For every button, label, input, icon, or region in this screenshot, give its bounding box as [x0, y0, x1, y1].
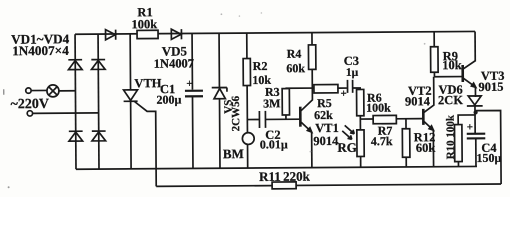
svg-text:BM: BM	[223, 146, 244, 161]
wire top rail	[75, 31, 475, 34]
wire zener column	[218, 33, 221, 168]
scan speck bottom left	[8, 186, 10, 188]
photoresistor RG	[357, 130, 364, 157]
wire R2 BM column	[246, 33, 249, 168]
resistor R4	[308, 45, 315, 70]
resistor R6	[357, 89, 364, 115]
wire VD6 to node	[474, 105, 476, 133]
svg-text:VTH: VTH	[134, 76, 161, 90]
svg-text:R2: R2	[253, 59, 268, 73]
wire lamp to bridge	[59, 90, 75, 92]
capacitor C1	[185, 90, 203, 92]
wire C2 to VT1 base	[266, 118, 299, 120]
svg-text:9014: 9014	[405, 94, 431, 108]
resistor R2	[243, 59, 250, 86]
zener VS	[212, 87, 227, 98]
svg-text:R10 100k: R10 100k	[445, 114, 457, 159]
wire VT3 emitter to VD6	[474, 87, 476, 97]
transistor VT2	[422, 109, 425, 125]
wire bottom rail A	[76, 166, 477, 169]
svg-text:1µ: 1µ	[346, 67, 359, 79]
svg-text:150µ: 150µ	[476, 151, 501, 165]
wire bottom rail B (R11 trigger line)	[156, 184, 501, 186]
wire C3 to R6	[353, 88, 360, 90]
svg-text:R4: R4	[287, 47, 302, 61]
wire right rail down to VT3	[474, 31, 476, 61]
wire node to R10	[458, 115, 476, 125]
scan specks top middle	[221, 13, 223, 15]
capacitor C3	[347, 80, 352, 93]
wire base line to C2	[248, 118, 259, 120]
microphone BM	[242, 133, 254, 145]
wire VT1 emitter down	[311, 132, 313, 168]
svg-text:62k: 62k	[314, 108, 333, 122]
terminal upper AC	[26, 88, 31, 93]
wire C1 column	[191, 33, 194, 168]
light arrows RG	[345, 125, 355, 134]
wire R6 to node	[359, 116, 361, 130]
resistor R5	[314, 85, 338, 93]
diode VD3	[69, 131, 83, 141]
svg-text:100k: 100k	[366, 101, 391, 115]
svg-text:+: +	[186, 78, 192, 90]
wire node to R7	[360, 118, 373, 120]
capacitor C4	[467, 133, 485, 135]
diode VD4	[92, 131, 106, 141]
wire R5 to C3	[338, 87, 347, 89]
wire upper AC to lamp	[31, 89, 47, 91]
resistor R7	[373, 115, 396, 123]
svg-text:220k: 220k	[283, 169, 311, 184]
wire bridge left column	[74, 34, 77, 169]
svg-text:R11: R11	[259, 169, 281, 184]
svg-text:200µ: 200µ	[156, 93, 181, 107]
diode VD2	[91, 60, 105, 70]
svg-text:4.7k: 4.7k	[371, 134, 393, 148]
transistor VT3	[461, 65, 464, 82]
capacitor C2	[259, 111, 265, 128]
svg-text:2CK: 2CK	[438, 93, 463, 107]
wire VT2 emitter down	[432, 130, 434, 167]
diode VD1	[68, 60, 82, 70]
svg-text:100k: 100k	[131, 17, 157, 31]
wire R7 to VT2 base	[396, 118, 422, 120]
thyristor VTH	[124, 90, 138, 101]
svg-text:60k: 60k	[416, 141, 436, 155]
wire lower AC to bridge	[33, 112, 99, 114]
diode on top rail	[106, 30, 116, 40]
wire R12 column	[405, 119, 407, 129]
transistor VT1	[299, 107, 302, 127]
resistor R11	[272, 182, 296, 189]
svg-text:~220V: ~220V	[10, 97, 48, 112]
wire R4 column	[311, 33, 313, 88]
svg-text:10k: 10k	[442, 58, 462, 72]
svg-text:1N4007: 1N4007	[154, 56, 194, 70]
svg-text:0.01µ: 0.01µ	[260, 137, 288, 151]
resistor R9	[431, 47, 439, 73]
wire VTH gate	[135, 101, 157, 186]
resistor R3	[282, 89, 289, 115]
wire R3 top to R4 node	[285, 87, 315, 89]
node junction dot	[473, 110, 477, 114]
svg-text:1N4007×4: 1N4007×4	[12, 43, 69, 58]
wire node right leg	[476, 110, 502, 184]
resistor R12	[402, 129, 410, 158]
wire VTH column	[129, 34, 132, 169]
svg-text:2CW56: 2CW56	[230, 95, 242, 131]
terminal lower AC	[27, 111, 32, 116]
svg-text:+: +	[467, 121, 473, 133]
scan speck left edge	[3, 89, 5, 94]
wire bridge right column	[97, 34, 100, 169]
svg-text:VT1: VT1	[315, 121, 339, 135]
svg-text:RG: RG	[337, 140, 357, 155]
svg-text:3M: 3M	[263, 96, 280, 110]
svg-text:9014: 9014	[313, 134, 339, 148]
svg-text:C3: C3	[344, 54, 359, 68]
svg-text:9015: 9015	[478, 80, 503, 94]
resistor R10	[454, 125, 462, 162]
svg-text:+: +	[340, 88, 346, 100]
wire R9 column	[433, 32, 435, 77]
wire VT2 collector to VT3 base	[434, 76, 461, 78]
diode VD6	[467, 96, 483, 106]
resistor R1	[137, 30, 158, 38]
svg-text:60k: 60k	[286, 61, 305, 75]
lamp indicator	[47, 85, 59, 97]
diode VD5	[171, 29, 181, 39]
